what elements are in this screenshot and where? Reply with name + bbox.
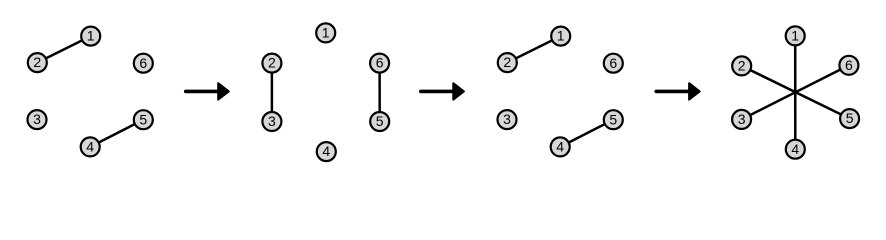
node 5 (panel 4): [840, 109, 859, 128]
svg-text:5: 5: [376, 113, 384, 129]
node 3 (panel 3): [498, 110, 517, 129]
svg-text:4: 4: [556, 139, 564, 155]
wire: edge 2-1 (panel 3): [507, 36, 560, 63]
node 1 (panel 2): [316, 23, 335, 42]
node 4 (panel 4): [786, 140, 805, 159]
node 2 (panel 1): [28, 53, 47, 72]
node 6 (panel 2): [370, 54, 389, 73]
svg-text:6: 6: [845, 57, 853, 73]
node 6 (panel 3): [604, 54, 623, 73]
svg-text:1: 1: [322, 25, 330, 41]
node 2 (panel 4): [732, 56, 751, 75]
arrow 3: [656, 83, 700, 99]
svg-text:1: 1: [557, 28, 565, 44]
svg-text:4: 4: [86, 139, 94, 155]
svg-text:1: 1: [791, 28, 799, 44]
svg-text:3: 3: [268, 113, 276, 129]
svg-text:2: 2: [33, 54, 41, 70]
node 2 (panel 2): [262, 54, 281, 73]
node 4 (panel 2): [317, 142, 336, 161]
node 2 (panel 3): [498, 53, 517, 72]
svg-text:2: 2: [503, 54, 511, 70]
svg-text:6: 6: [376, 55, 384, 71]
node 5 (panel 3): [604, 110, 623, 129]
wire: edge 4-5 (panel 3): [560, 120, 613, 147]
node 3 (panel 2): [262, 112, 281, 131]
svg-text:5: 5: [846, 110, 854, 126]
wire: edge 3-6 (panel 4): [742, 65, 849, 119]
arrow 1: [186, 83, 229, 99]
svg-text:2: 2: [738, 58, 746, 74]
node 5 (panel 2): [370, 112, 389, 131]
node 3 (panel 1): [28, 110, 47, 129]
svg-text:3: 3: [503, 111, 511, 127]
node 6 (panel 4): [839, 56, 858, 75]
wire: edge 6-5 (panel 2): [378, 63, 381, 121]
svg-text:6: 6: [609, 55, 617, 71]
wire: edge 2-3 (panel 2): [271, 63, 274, 121]
node 4 (panel 3): [551, 137, 570, 156]
node 5 (panel 1): [134, 110, 153, 129]
wire: edge 1-4 (panel 4): [794, 36, 797, 149]
svg-text:5: 5: [139, 111, 147, 127]
node 1 (panel 1): [81, 27, 100, 46]
wire: edge 2-5 (panel 4): [742, 66, 850, 119]
node 3 (panel 4): [732, 110, 751, 129]
arrow 2: [421, 83, 464, 99]
svg-text:3: 3: [33, 111, 41, 127]
svg-text:6: 6: [139, 55, 147, 71]
node 1 (panel 3): [551, 27, 570, 46]
svg-text:2: 2: [268, 55, 276, 71]
wire: edge 2-1 (panel 1): [37, 36, 90, 63]
svg-text:1: 1: [87, 28, 95, 44]
node 6 (panel 1): [134, 54, 153, 73]
node 1 (panel 4): [786, 26, 805, 45]
svg-text:3: 3: [738, 111, 746, 127]
svg-text:4: 4: [791, 141, 799, 157]
node 4 (panel 1): [81, 137, 100, 156]
svg-text:4: 4: [322, 143, 330, 159]
svg-text:5: 5: [609, 111, 617, 127]
wire: edge 4-5 (panel 1): [90, 120, 143, 147]
